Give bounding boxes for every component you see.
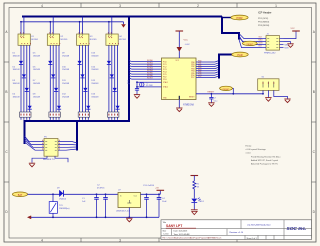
svg-text:1N4148: 1N4148 xyxy=(33,83,41,85)
svg-text:Revision: v1.10: Revision: v1.10 xyxy=(230,232,245,234)
svg-text:XTAL1: XTAL1 xyxy=(163,81,168,84)
svg-text:B: B xyxy=(5,90,7,94)
svg-text:20p: 20p xyxy=(127,83,130,85)
svg-text:PD7: PD7 xyxy=(198,76,202,78)
svg-text:File: C:/Users/Madera/Document: File: C:/Users/Madera/Documents/AlexProj… xyxy=(163,237,222,240)
wire: opto U4 output columns xyxy=(109,45,118,120)
svg-text:1N4148: 1N4148 xyxy=(13,69,21,71)
wire: post-diode feed xyxy=(64,193,119,195)
svg-text:1N4148: 1N4148 xyxy=(13,55,21,57)
diode D4 xyxy=(13,94,32,110)
svg-text:Fixed Missing Resistor R5 (No.: Fixed Missing Resistor R5 (No.) xyxy=(251,155,281,158)
capacitor C6 (xtal load) xyxy=(127,80,139,94)
node: errata notes xyxy=(246,144,281,165)
ground (icp) xyxy=(287,44,293,48)
svg-text:(C) 2007-2008 Sandy Ganz: (C) 2007-2008 Sandy Ganz xyxy=(248,224,271,226)
ground (relay header) xyxy=(29,163,35,167)
svg-text:1N4148: 1N4148 xyxy=(33,69,41,71)
svg-text:VCC: VCC xyxy=(291,28,296,30)
ground arrow (opto return) xyxy=(121,22,126,28)
svg-text:1N4148: 1N4148 xyxy=(13,97,21,99)
bus: matrix collector bus xyxy=(25,120,130,122)
bus: drop to relay header right xyxy=(76,120,78,151)
diode D3 xyxy=(13,80,29,91)
opto-coupler U3 xyxy=(77,32,97,45)
wire: stubs from bus to opto U3 xyxy=(79,17,83,34)
node: title block xyxy=(161,220,312,240)
node: SOC Inc logo xyxy=(287,226,307,232)
ground (reset cap) xyxy=(208,103,214,107)
diode D2 xyxy=(13,66,27,78)
relay connector U5 xyxy=(42,136,60,161)
op-amp U6 MCU body xyxy=(162,58,197,100)
wire: regulator output xyxy=(141,193,161,195)
svg-text:MOC805: MOC805 xyxy=(119,39,126,41)
wire: stubs from bus to opto U1 xyxy=(20,17,24,34)
svg-text:MOSI: MOSI xyxy=(285,47,290,49)
svg-text:RESET: RESET xyxy=(189,96,195,98)
svg-text:Errata:: Errata: xyxy=(246,144,253,147)
svg-text:PAR: PAR xyxy=(237,53,242,57)
svg-text:1N4148: 1N4148 xyxy=(62,69,70,71)
svg-text:1N6383(ka): 1N6383(ka) xyxy=(59,208,70,210)
wire: stubs from bus to opto U4 xyxy=(108,17,112,34)
port PWR xyxy=(222,15,248,20)
svg-text:10uF: 10uF xyxy=(162,201,167,203)
wire: RESET net xyxy=(196,92,264,95)
svg-text:PD7: PD7 xyxy=(191,77,195,79)
diode D12 xyxy=(62,94,90,110)
svg-text:1N4148: 1N4148 xyxy=(91,55,99,57)
svg-text:1N4004: 1N4004 xyxy=(59,199,67,201)
switch S1 xyxy=(258,77,279,91)
wire: VCC feed to MCU xyxy=(178,32,180,59)
connector P2 (column footer) xyxy=(49,112,60,117)
svg-text:C7: C7 xyxy=(214,98,216,100)
svg-text:1: 1 xyxy=(275,4,277,8)
svg-text:VCC: VCC xyxy=(184,40,189,42)
svg-text:Letter: Letter xyxy=(164,233,169,236)
svg-text:ATMEGA8: ATMEGA8 xyxy=(183,104,195,107)
svg-text:RELAY8 TO: RELAY8 TO xyxy=(43,158,55,161)
diode D11 xyxy=(62,80,87,91)
diode D18 series xyxy=(57,188,67,201)
svg-text:47uF/16: 47uF/16 xyxy=(97,187,105,189)
regulator U7 xyxy=(116,190,141,213)
svg-text:SANY LPT: SANY LPT xyxy=(166,224,182,228)
node: ICP right net stubs xyxy=(285,44,290,49)
opto-coupler U4 xyxy=(106,32,126,45)
connector J1 ICP header xyxy=(262,34,284,55)
capacitor C3 xyxy=(143,185,155,217)
wire: opto ground return xyxy=(21,21,124,23)
svg-text:XTAL2: XTAL2 xyxy=(163,86,168,89)
diode D14 xyxy=(91,66,114,78)
opto-coupler U2 xyxy=(47,32,67,45)
svg-text:Attached Packages to 99.9%: Attached Packages to 99.9% xyxy=(251,162,278,165)
power +5V (led) xyxy=(191,176,199,182)
svg-text:1N4148: 1N4148 xyxy=(13,83,21,85)
node: title texts xyxy=(163,221,271,240)
capacitor C2 xyxy=(97,185,108,218)
svg-text:Size: Size xyxy=(163,231,167,233)
wire: ground rail xyxy=(29,216,160,218)
svg-text:1N4148: 1N4148 xyxy=(62,83,70,85)
ground (led) xyxy=(191,210,198,215)
ground (switch pin2) xyxy=(265,98,271,102)
svg-text:1N4148: 1N4148 xyxy=(62,55,70,57)
power VCC (icp) xyxy=(291,28,300,31)
port RESET (icp) xyxy=(242,41,257,46)
wire: MCU ground xyxy=(178,100,180,109)
wire: switch pin1 to RESET xyxy=(262,90,264,93)
LED D17 xyxy=(191,198,204,210)
svg-text:RST: RST xyxy=(259,46,262,48)
svg-text:1N4148: 1N4148 xyxy=(33,55,41,57)
capacitor C4 xyxy=(157,194,168,217)
wire: switch pin2 to ground xyxy=(267,90,269,97)
bus: drop to relay header left xyxy=(24,120,26,144)
svg-text:2: 2 xyxy=(197,4,199,8)
ground (regulator) xyxy=(126,218,132,222)
ground (switch pin3) xyxy=(284,99,290,103)
svg-text:v1.00 speed Shortage: v1.00 speed Shortage xyxy=(246,148,267,151)
svg-text:Date: 10-8-2013: Date: 10-8-2013 xyxy=(174,230,188,233)
svg-text:C3 0.1uF/50: C3 0.1uF/50 xyxy=(143,185,155,187)
bus: MCU port bus riser xyxy=(219,55,232,79)
wire: opto U2 output columns xyxy=(50,45,59,120)
diode D5 xyxy=(33,53,53,65)
resistor R1 xyxy=(193,181,200,198)
svg-text:LM2940CT-5.0: LM2940CT-5.0 xyxy=(116,210,131,212)
svg-text:ICP Header: ICP Header xyxy=(258,11,272,15)
node: row net labels xyxy=(147,60,153,80)
svg-text:ROW7: ROW7 xyxy=(147,78,153,80)
wire: relay header stub right xyxy=(55,156,68,162)
opto-coupler U1 xyxy=(18,32,38,45)
ground (MCU) xyxy=(176,108,182,112)
diode D10 xyxy=(62,66,85,78)
wire: relay header ground branch xyxy=(32,156,47,163)
wire: ICP pin4 to ground xyxy=(284,42,291,44)
svg-text:Sheet 1 of 1: Sheet 1 of 1 xyxy=(247,237,257,240)
svg-text:1N4148: 1N4148 xyxy=(62,97,70,99)
wire: regulator ground pin xyxy=(128,208,130,218)
wire: opto U3 output columns xyxy=(80,45,89,120)
svg-text:MOC805: MOC805 xyxy=(61,39,68,41)
svg-text:PV1 (SCK): PV1 (SCK) xyxy=(258,18,268,20)
wire: fan into relay header right pins xyxy=(58,142,77,151)
diode D6 xyxy=(33,66,56,78)
wire: opto U1 output columns xyxy=(21,45,30,120)
port PAR xyxy=(232,52,248,57)
wire: switch pin3 to ground xyxy=(274,90,288,98)
svg-text:BAT: BAT xyxy=(18,194,23,197)
svg-text:RESET: RESET xyxy=(246,44,253,46)
svg-text:C6: C6 xyxy=(127,80,129,82)
wire: battery feed xyxy=(28,193,60,195)
svg-text:PV2 (MISO): PV2 (MISO) xyxy=(258,21,270,23)
ground (xtal) xyxy=(134,95,140,99)
diode D7 xyxy=(33,80,58,91)
svg-text:PINHD-4X2: PINHD-4X2 xyxy=(264,52,276,54)
diode D8 xyxy=(33,94,61,110)
svg-text:1N4148: 1N4148 xyxy=(33,97,41,99)
varistor TV1 xyxy=(49,194,70,217)
svg-text:Y2: Y2 xyxy=(146,82,148,84)
bus: top power bus xyxy=(22,16,222,18)
power +5V (regulator out) xyxy=(155,188,164,195)
diode D13 xyxy=(91,53,111,65)
diode D16 xyxy=(91,94,119,110)
svg-text:LED1: LED1 xyxy=(199,201,205,203)
svg-text:RESET: RESET xyxy=(208,92,215,94)
wire: XTAL2 xyxy=(136,86,161,88)
svg-text:4: 4 xyxy=(41,4,43,8)
capacitor C7 (reset) xyxy=(209,94,217,103)
wire: matrix rows to MCU port C/D xyxy=(129,60,162,79)
svg-text:+5V: +5V xyxy=(155,188,159,190)
port BAT xyxy=(12,192,27,197)
svg-text:MOC805: MOC805 xyxy=(31,39,38,41)
connector P3 (column footer) xyxy=(78,112,89,117)
svg-text:1N4148: 1N4148 xyxy=(91,69,99,71)
node: ICP Header notes xyxy=(258,11,272,27)
svg-text:v1.10: v1.10 xyxy=(246,152,252,154)
connector P1 (column footer) xyxy=(20,112,31,117)
ground arrow (rail end) xyxy=(28,216,31,219)
svg-text:Time: 10:55:03 AM: Time: 10:55:03 AM xyxy=(174,233,190,236)
svg-text:3: 3 xyxy=(119,239,121,243)
svg-text:PWR: PWR xyxy=(236,16,242,20)
power +5V arrow (MCU) xyxy=(176,31,191,52)
svg-text:Out: Out xyxy=(134,194,138,197)
svg-text:1N4148: 1N4148 xyxy=(91,83,99,85)
svg-text:In: In xyxy=(120,195,122,197)
svg-text:4: 4 xyxy=(41,239,43,243)
svg-text:0.1u: 0.1u xyxy=(214,100,218,102)
port RESET (mcu) xyxy=(220,86,234,94)
diode D15 xyxy=(91,80,116,91)
svg-text:B: B xyxy=(313,90,315,94)
svg-text:3: 3 xyxy=(119,4,121,8)
connector P4 (column footer) xyxy=(108,112,119,117)
svg-text:32.768K: 32.768K xyxy=(146,85,153,87)
svg-text:1N4148: 1N4148 xyxy=(91,97,99,99)
capacitor C1 xyxy=(82,194,99,217)
svg-text:Added SPI ICP, Fixed Crystal: Added SPI ICP, Fixed Crystal xyxy=(251,159,279,162)
svg-text:+5.0V: +5.0V xyxy=(185,44,191,46)
svg-text:PD3: PD3 xyxy=(163,79,167,81)
crystal Y2 32.768kHz xyxy=(140,82,154,87)
wire: XTAL1 xyxy=(136,81,161,83)
bus: riser to MCU port bus xyxy=(128,16,130,123)
svg-text:SOC Inc.: SOC Inc. xyxy=(287,226,307,232)
svg-text:MOC805: MOC805 xyxy=(90,39,97,41)
wire: stubs from bus to opto U2 xyxy=(49,17,53,34)
wire: fan to ICP pins xyxy=(239,34,263,48)
diode D9 xyxy=(62,53,82,65)
svg-text:RESET: RESET xyxy=(223,89,230,91)
wire: fan into relay header left pins xyxy=(25,136,45,150)
diode D1 xyxy=(13,53,24,65)
wire: bus bend down to fan at ICP xyxy=(222,17,239,40)
svg-text:PV3 (MOSI): PV3 (MOSI) xyxy=(258,25,270,27)
wire: ICP pin2 to VCC xyxy=(284,32,297,39)
node: MCU part label ATMEGA8 xyxy=(183,104,195,107)
wire: MCU port B to bus xyxy=(196,61,219,78)
